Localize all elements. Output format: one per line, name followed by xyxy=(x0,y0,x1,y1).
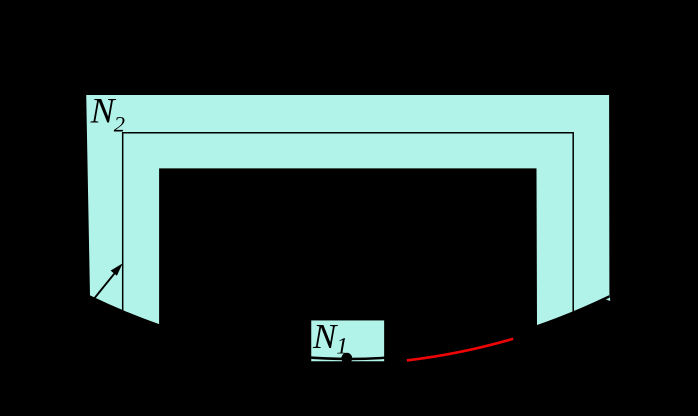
highlighted loop segment (red arc) xyxy=(407,339,513,361)
core (cyan U-shaped magnetic core with N2 winding) xyxy=(85,94,610,326)
svg-text:2: 2 xyxy=(114,111,125,136)
winding boundary line (thin inner rectangle on core) xyxy=(123,133,574,313)
coil N1 (small cyan box on the loop) xyxy=(310,320,385,363)
svg-text:N: N xyxy=(312,317,338,356)
svg-text:N: N xyxy=(90,91,117,131)
junction dot on loop xyxy=(341,353,352,364)
wire loop (large elliptical conductor, bottom arc, crosses N1 box) xyxy=(89,296,609,359)
arrow pointing to winding boundary xyxy=(93,263,123,300)
svg-text:1: 1 xyxy=(336,334,348,360)
corner sliver at right leg outer edge xyxy=(605,296,611,301)
